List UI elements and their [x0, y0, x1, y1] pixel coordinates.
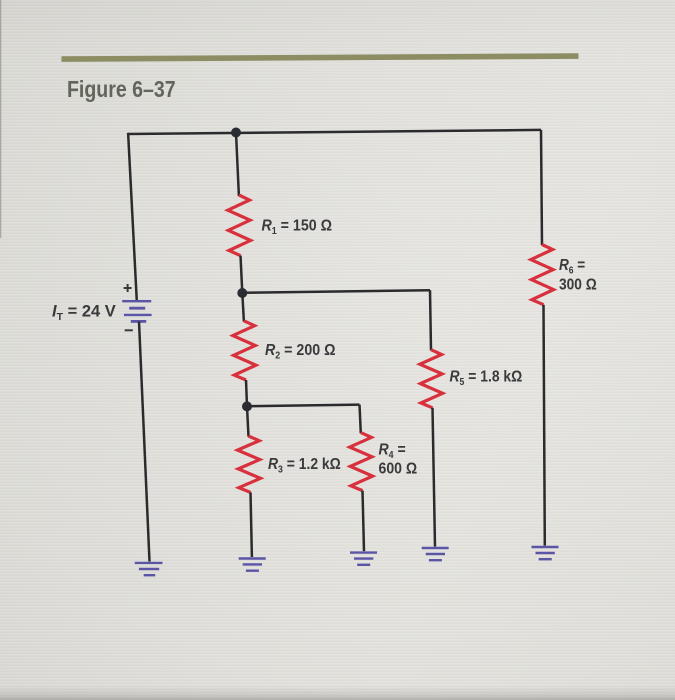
svg-text:R1 = 150 Ω: R1 = 150 Ω	[262, 217, 333, 237]
svg-text:R2 = 200 Ω: R2 = 200 Ω	[265, 341, 336, 361]
resistor R4	[350, 433, 373, 491]
battery source VT (plates)	[122, 301, 151, 321]
node C junction dot	[242, 401, 252, 411]
svg-text:R4 =: R4 =	[379, 441, 406, 460]
svg-text:300 Ω: 300 Ω	[559, 275, 597, 293]
wire: right vertical from node A wire down to R6	[541, 130, 542, 245]
node B junction dot	[237, 288, 247, 298]
node A junction dot	[231, 128, 241, 138]
figure title "Figure 6-37"	[67, 76, 176, 102]
resistor R2	[233, 321, 256, 380]
title rule bar	[62, 53, 579, 62]
wire: node B down to R2	[242, 293, 244, 322]
svg-text:IT = 24 V: IT = 24 V	[52, 302, 116, 323]
resistor R1	[228, 195, 251, 256]
ground (R6)	[532, 547, 559, 559]
wire: R3 bottom down to ground	[251, 492, 252, 557]
ground (R3)	[239, 559, 266, 571]
label IT = 24 V	[52, 302, 116, 323]
ground (R5)	[422, 548, 449, 560]
svg-text:Figure 6–37: Figure 6–37	[67, 76, 176, 102]
wire: node C down to R3	[247, 406, 249, 436]
svg-text:R3 = 1.2 kΩ: R3 = 1.2 kΩ	[268, 455, 341, 475]
wire: node C horizontal to R4 branch	[247, 405, 360, 407]
wire: node A down to R1	[236, 133, 239, 197]
label R6 = 300 ohm (two lines)	[559, 257, 597, 294]
wire: R5 bottom down to ground	[433, 408, 436, 547]
label R1 = 150 ohm	[262, 217, 333, 237]
svg-text:R5 = 1.8 kΩ: R5 = 1.8 kΩ	[450, 368, 523, 388]
resistor R5	[420, 350, 443, 408]
wire: R2 bottom to node C	[246, 380, 247, 406]
wire: node B horizontal to R5 branch	[242, 290, 430, 293]
resistor R6	[531, 245, 554, 305]
wire: R6 bottom down to ground	[544, 305, 545, 546]
label R4 = 600 ohm (two lines)	[379, 441, 418, 478]
wire: R1 bottom to node B	[241, 256, 243, 293]
wire: R4 branch down from node C wire	[360, 405, 361, 434]
battery - polarity mark	[125, 329, 133, 331]
wire: R4 bottom down to ground	[363, 491, 365, 552]
label R5 = 1.8 kohm	[450, 368, 523, 388]
svg-text:R6 =: R6 =	[559, 257, 586, 276]
ground (R4)	[350, 553, 377, 565]
ground (battery)	[135, 563, 163, 575]
wire: top horizontal node A	[128, 130, 541, 134]
svg-text:600 Ω: 600 Ω	[379, 460, 418, 478]
label R2 = 200 ohm	[265, 341, 336, 361]
wire: left vertical from top to battery +	[128, 133, 137, 301]
wire: battery - down to ground	[139, 322, 150, 562]
label R3 = 1.2 kohm	[268, 455, 341, 475]
wire: R5 branch down from node B wire	[430, 290, 431, 350]
resistor R3	[238, 436, 261, 492]
battery + polarity mark	[124, 284, 132, 292]
